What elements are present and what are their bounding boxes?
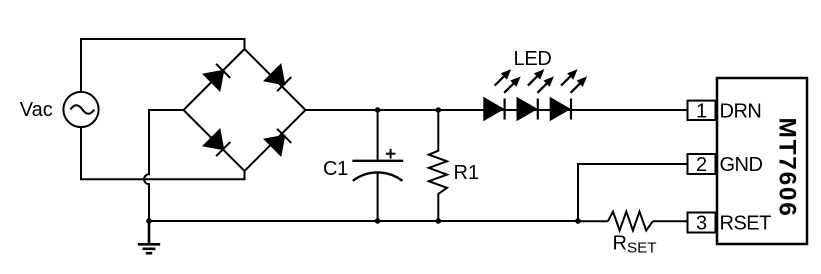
resistor R1 xyxy=(429,110,447,221)
svg-text:3: 3 xyxy=(696,213,707,235)
svg-text:R1: R1 xyxy=(454,162,480,184)
junction: R1 top node xyxy=(436,107,442,113)
pin 2 box xyxy=(688,154,716,174)
junction: C1 bottom node xyxy=(375,218,381,224)
svg-text:2: 2 xyxy=(696,154,707,176)
diode D2 (bridge top-right) xyxy=(265,65,292,92)
wire: ground bus to RSET xyxy=(578,220,608,222)
junction: ground node xyxy=(146,218,152,224)
diode D1 (bridge top-left) xyxy=(204,63,231,90)
ground xyxy=(138,221,160,253)
svg-text:GND: GND xyxy=(720,154,763,176)
polarity mark + of C1 xyxy=(386,149,396,159)
junction: RSET/GND node xyxy=(575,218,581,224)
wire: Vac bottom to bridge bottom vertex xyxy=(81,127,245,179)
svg-text:LED: LED xyxy=(514,48,552,70)
wire: Vac top to bridge top vertex xyxy=(81,39,245,92)
diode bridge diamond xyxy=(184,49,306,171)
diode D4 (bridge bottom-right) xyxy=(265,128,292,155)
svg-text:MT7606: MT7606 xyxy=(774,117,801,217)
wire: RSET to pin 3 xyxy=(653,220,688,222)
diode D3 (bridge bottom-left) xyxy=(204,130,231,157)
pin 1 box xyxy=(688,101,716,120)
svg-text:RSET: RSET xyxy=(720,212,772,234)
LED LED3 xyxy=(551,66,590,119)
wire: bridge left vertex to negative rail (with hop over Vac return) xyxy=(144,110,183,221)
svg-text:1: 1 xyxy=(696,100,707,122)
wire: GND pin 2 to ground bus xyxy=(578,164,688,221)
capacitor C1 xyxy=(352,110,403,221)
LED LED1 xyxy=(484,66,523,119)
wire: bottom rail (ground bus) xyxy=(149,220,578,222)
svg-text:C1: C1 xyxy=(323,158,348,180)
svg-text:RSET: RSET xyxy=(613,232,657,256)
junction: R1 bottom node xyxy=(436,218,442,224)
IC U1 MT7606 body xyxy=(717,78,807,244)
svg-text:Vac: Vac xyxy=(20,99,53,121)
pin 3 box xyxy=(688,213,716,233)
LED LED2 xyxy=(518,66,557,119)
resistor RSET xyxy=(608,212,653,231)
ac source Vac xyxy=(63,92,98,127)
junction: C1 top node xyxy=(375,107,381,113)
wire: top rail from bridge + output to pin 1 xyxy=(306,109,688,111)
svg-text:DRN: DRN xyxy=(720,101,762,123)
